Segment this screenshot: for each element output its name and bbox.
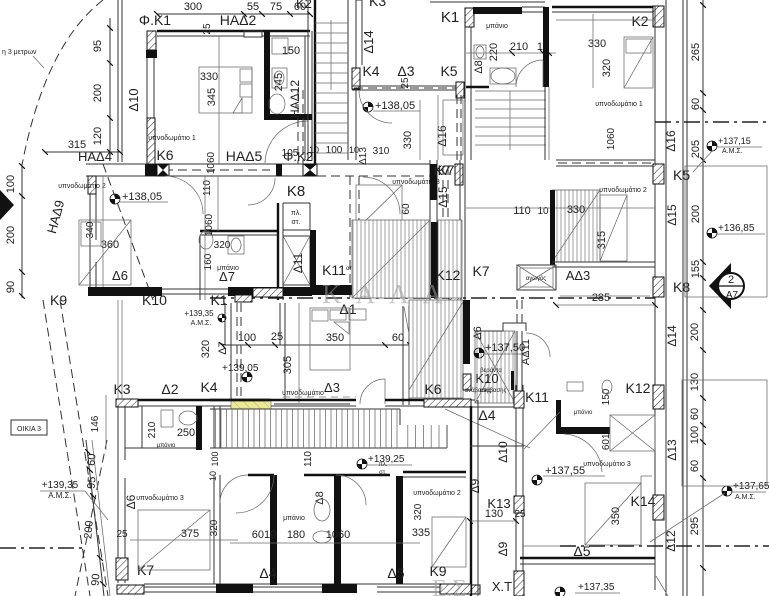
svg-text:200: 200 xyxy=(689,323,701,341)
svg-text:120: 120 xyxy=(92,127,104,145)
svg-text:320: 320 xyxy=(214,240,231,251)
svg-text:+138,05: +138,05 xyxy=(375,100,415,112)
svg-text:Δ13: Δ13 xyxy=(665,439,679,461)
svg-text:+139,35: +139,35 xyxy=(184,309,214,318)
svg-text:360: 360 xyxy=(101,239,119,251)
svg-text:330: 330 xyxy=(567,204,585,216)
svg-text:Α.Μ.Σ.: Α.Μ.Σ. xyxy=(191,320,212,327)
svg-text:Δ4: Δ4 xyxy=(259,565,276,581)
svg-text:Κ6: Κ6 xyxy=(424,381,441,397)
svg-text:60: 60 xyxy=(86,453,99,466)
svg-text:1060: 1060 xyxy=(204,213,215,236)
svg-text:60: 60 xyxy=(689,408,701,420)
svg-text:25: 25 xyxy=(514,509,526,520)
svg-text:Δ16: Δ16 xyxy=(435,125,449,147)
svg-text:200: 200 xyxy=(82,520,96,539)
svg-text:Α7: Α7 xyxy=(726,290,739,301)
svg-text:100: 100 xyxy=(5,175,17,193)
svg-text:110: 110 xyxy=(202,180,213,196)
svg-text:Δ9: Δ9 xyxy=(468,478,482,493)
svg-text:Δ6: Δ6 xyxy=(112,268,128,283)
svg-text:Κ7: Κ7 xyxy=(472,263,489,279)
svg-text:ΗΑΔ4: ΗΑΔ4 xyxy=(78,149,112,164)
svg-text:+138,05: +138,05 xyxy=(122,191,162,203)
svg-text:310: 310 xyxy=(373,146,390,157)
svg-text:Κ2: Κ2 xyxy=(296,0,312,11)
svg-text:Κ1: Κ1 xyxy=(441,9,459,26)
svg-text:200: 200 xyxy=(5,226,17,244)
svg-text:+137,55: +137,55 xyxy=(545,465,585,477)
svg-text:295: 295 xyxy=(689,517,701,535)
svg-text:Α.Μ.Σ.: Α.Μ.Σ. xyxy=(722,148,743,155)
svg-text:Δ7: Δ7 xyxy=(219,269,235,284)
svg-text:300: 300 xyxy=(184,1,202,13)
svg-text:Κ9: Κ9 xyxy=(50,292,67,308)
svg-text:ΗΑΔ5: ΗΑΔ5 xyxy=(226,148,263,164)
svg-text:75: 75 xyxy=(270,1,282,13)
svg-text:330: 330 xyxy=(200,71,218,83)
svg-text:Φ.Κ1: Φ.Κ1 xyxy=(139,12,171,28)
svg-text:1060: 1060 xyxy=(606,127,617,150)
svg-text:Δ8: Δ8 xyxy=(473,60,485,73)
svg-text:60: 60 xyxy=(392,332,404,344)
svg-text:100: 100 xyxy=(210,451,220,466)
svg-text:205: 205 xyxy=(690,140,702,158)
svg-text:Κ8: Κ8 xyxy=(287,183,305,200)
svg-text:340: 340 xyxy=(85,221,96,238)
svg-text:στ.: στ. xyxy=(379,470,387,476)
svg-text:στ.: στ. xyxy=(291,219,300,226)
svg-text:130: 130 xyxy=(689,373,701,391)
svg-text:25: 25 xyxy=(271,331,283,343)
svg-text:Δ13: Δ13 xyxy=(358,147,369,165)
svg-text:Δ9: Δ9 xyxy=(496,541,510,556)
svg-text:335: 335 xyxy=(412,527,430,539)
svg-text:πλ.: πλ. xyxy=(379,462,388,468)
svg-text:Δ10: Δ10 xyxy=(126,88,141,111)
svg-text:305: 305 xyxy=(282,356,294,374)
svg-text:1060: 1060 xyxy=(206,151,217,174)
svg-text:60: 60 xyxy=(689,460,701,472)
svg-text:150: 150 xyxy=(282,45,300,57)
svg-text:345: 345 xyxy=(206,88,218,106)
svg-text:υπνοδωμάτιο 3: υπνοδωμάτιο 3 xyxy=(583,460,631,468)
svg-text:60: 60 xyxy=(690,98,702,110)
svg-text:Κ11: Κ11 xyxy=(525,389,549,405)
svg-text:250: 250 xyxy=(177,427,195,439)
svg-text:Δ14: Δ14 xyxy=(665,325,679,347)
svg-text:Δ15: Δ15 xyxy=(665,204,679,226)
svg-text:320: 320 xyxy=(413,503,424,520)
svg-text:200: 200 xyxy=(92,84,104,102)
svg-text:Ε.Σ: Ε.Σ xyxy=(432,576,467,596)
svg-text:100: 100 xyxy=(689,426,701,444)
svg-text:Δ2: Δ2 xyxy=(161,381,178,397)
svg-text:Δ5: Δ5 xyxy=(573,543,590,559)
svg-text:200: 200 xyxy=(690,205,702,223)
svg-text:375: 375 xyxy=(181,528,199,540)
svg-text:πλ.: πλ. xyxy=(291,210,301,217)
svg-text:Χ.Τ: Χ.Τ xyxy=(492,579,512,594)
svg-text:μπάνιο: μπάνιο xyxy=(486,22,508,30)
svg-text:265: 265 xyxy=(690,43,702,61)
svg-text:Δ6: Δ6 xyxy=(472,326,484,339)
svg-text:25: 25 xyxy=(116,529,128,540)
svg-text:Δ16: Δ16 xyxy=(664,130,678,152)
svg-text:105: 105 xyxy=(282,148,299,159)
svg-text:Δ3: Δ3 xyxy=(397,63,414,79)
svg-text:95: 95 xyxy=(86,476,99,489)
svg-text:Δ4: Δ4 xyxy=(478,407,495,423)
svg-text:330: 330 xyxy=(588,38,606,50)
svg-text:ΑΔ3: ΑΔ3 xyxy=(566,268,591,283)
svg-text:Δ11: Δ11 xyxy=(291,252,305,273)
svg-text:320: 320 xyxy=(601,59,613,77)
svg-text:+139,35: +139,35 xyxy=(42,480,79,491)
svg-text:υπνοδωμάτιο 2: υπνοδωμάτιο 2 xyxy=(58,182,106,190)
svg-text:Κ7: Κ7 xyxy=(433,162,450,178)
svg-text:ΟΙΚΙΑ 3: ΟΙΚΙΑ 3 xyxy=(17,426,41,433)
svg-text:110: 110 xyxy=(303,451,314,467)
svg-text:Κ6: Κ6 xyxy=(156,147,173,163)
svg-text:Κ8: Κ8 xyxy=(673,279,690,295)
svg-text:210: 210 xyxy=(147,421,158,438)
svg-text:Κ5: Κ5 xyxy=(440,63,457,79)
svg-text:υπνοδωμάτιο 1: υπνοδωμάτιο 1 xyxy=(595,100,643,108)
svg-text:90: 90 xyxy=(5,281,17,293)
svg-text:90: 90 xyxy=(90,573,103,586)
svg-text:μπάνιο: μπάνιο xyxy=(157,442,176,449)
svg-text:υπνοδωμάτιο: υπνοδωμάτιο xyxy=(282,389,324,397)
svg-text:Δ5: Δ5 xyxy=(387,565,404,581)
svg-text:+137,35: +137,35 xyxy=(578,582,615,593)
svg-text:Κ12: Κ12 xyxy=(626,380,651,396)
svg-text:330: 330 xyxy=(402,131,414,149)
svg-text:10: 10 xyxy=(208,471,218,481)
svg-text:25: 25 xyxy=(400,77,411,89)
svg-text:25: 25 xyxy=(202,23,213,35)
svg-text:υπνοδωμάτιο 1: υπνοδωμάτιο 1 xyxy=(148,134,196,142)
svg-text:+139,05: +139,05 xyxy=(222,363,259,374)
svg-text:μπάνιο: μπάνιο xyxy=(283,514,305,522)
svg-text:Α.Μ.Σ.: Α.Μ.Σ. xyxy=(735,494,756,501)
svg-text:+136,85: +136,85 xyxy=(718,223,755,234)
svg-text:Α.Μ.Σ.: Α.Μ.Σ. xyxy=(48,491,72,500)
svg-text:ανάβασης: ανάβασης xyxy=(465,387,492,394)
svg-text:220: 220 xyxy=(488,43,500,61)
svg-text:Κ4: Κ4 xyxy=(200,379,217,395)
svg-text:210: 210 xyxy=(510,41,528,53)
svg-text:Κ2: Κ2 xyxy=(631,13,648,29)
svg-text:130: 130 xyxy=(485,508,503,520)
svg-text:Κ14: Κ14 xyxy=(631,493,656,509)
svg-text:6010: 6010 xyxy=(252,529,276,541)
svg-text:110: 110 xyxy=(513,205,531,217)
svg-text:+137,65: +137,65 xyxy=(733,481,769,492)
svg-text:υπνοδωμάτιο 2: υπνοδωμάτιο 2 xyxy=(413,489,461,497)
svg-text:350: 350 xyxy=(326,332,344,344)
svg-text:ΚΑΛΑ: ΚΑΛΑ xyxy=(322,279,456,309)
svg-text:+137,15: +137,15 xyxy=(718,136,751,146)
svg-text:η 3 μετρων: η 3 μετρων xyxy=(2,49,37,56)
svg-text:Δ10: Δ10 xyxy=(496,441,510,463)
svg-text:320: 320 xyxy=(209,519,220,536)
svg-text:υπνοδωμάτιο 2: υπνοδωμάτιο 2 xyxy=(599,186,647,194)
svg-text:350: 350 xyxy=(610,507,622,525)
svg-text:320: 320 xyxy=(200,340,212,358)
svg-text:Κ4: Κ4 xyxy=(362,63,379,79)
svg-text:Δ3: Δ3 xyxy=(324,380,340,395)
svg-text:245: 245 xyxy=(273,73,285,91)
svg-text:155: 155 xyxy=(690,260,702,278)
svg-text:ΗΑΔ2: ΗΑΔ2 xyxy=(220,12,257,28)
svg-text:Κ5: Κ5 xyxy=(673,167,690,183)
svg-text:315: 315 xyxy=(68,139,86,151)
svg-text:μπάνιο: μπάνιο xyxy=(574,409,593,416)
svg-text:100: 100 xyxy=(326,145,343,156)
svg-text:Δ12: Δ12 xyxy=(664,530,678,552)
svg-text:60: 60 xyxy=(401,203,412,215)
svg-text:Κ3: Κ3 xyxy=(369,0,386,9)
svg-text:αγωγός: αγωγός xyxy=(526,275,546,282)
svg-text:ΗΑΔ12: ΗΑΔ12 xyxy=(288,80,302,118)
svg-text:180: 180 xyxy=(287,529,305,541)
svg-text:2: 2 xyxy=(728,274,734,286)
svg-text:Δ7: Δ7 xyxy=(217,341,229,354)
svg-text:Κ11: Κ11 xyxy=(322,262,346,278)
svg-text:Δ14: Δ14 xyxy=(361,30,376,53)
svg-text:1060: 1060 xyxy=(326,529,350,541)
svg-text:146: 146 xyxy=(90,415,101,432)
svg-text:βεράντα: βεράντα xyxy=(480,367,502,374)
svg-text:υπνοδωμάτιο 3: υπνοδωμάτιο 3 xyxy=(136,494,184,502)
svg-text:95: 95 xyxy=(92,40,104,52)
